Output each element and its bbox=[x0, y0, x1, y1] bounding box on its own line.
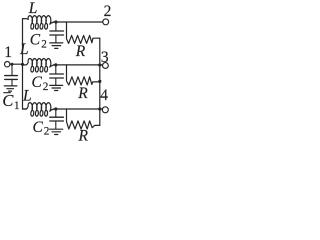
ground under C1 bbox=[4, 86, 17, 91]
svg-text:C: C bbox=[2, 91, 14, 110]
svg-text:C: C bbox=[33, 119, 44, 136]
resistor R3 bbox=[67, 109, 100, 129]
wire branch2 to terminal 3 bbox=[54, 64, 103, 66]
svg-text:1: 1 bbox=[14, 100, 20, 112]
wire right bus bbox=[99, 38, 101, 125]
svg-text:C: C bbox=[30, 32, 41, 49]
terminal 1 circle bbox=[5, 61, 10, 66]
capacitor C2 branch2 bbox=[50, 65, 64, 85]
svg-text:R: R bbox=[78, 127, 89, 144]
node right bus / branch3 wire bbox=[98, 107, 101, 110]
inductor L2 bbox=[23, 59, 54, 73]
svg-text:R: R bbox=[77, 85, 88, 102]
svg-text:2: 2 bbox=[44, 125, 50, 137]
ground under C2 branch3 bbox=[50, 129, 63, 134]
resistor R1 bbox=[67, 22, 100, 43]
terminal 2 circle bbox=[103, 19, 109, 25]
terminal 4 circle bbox=[102, 107, 108, 113]
capacitor C2 branch1 bbox=[50, 22, 64, 43]
svg-text:2: 2 bbox=[104, 3, 112, 20]
svg-text:2: 2 bbox=[41, 38, 47, 50]
wire left bus bbox=[23, 19, 27, 109]
node C2 tap branch2 bbox=[54, 63, 57, 66]
label C2 branch3 bbox=[33, 119, 50, 138]
svg-text:1: 1 bbox=[4, 44, 12, 61]
ground under C2 branch1 bbox=[50, 43, 63, 49]
svg-text:L: L bbox=[28, 0, 38, 17]
label C2 branch2 bbox=[32, 74, 49, 93]
node right bus / R2 bbox=[98, 80, 101, 83]
ground under C2 branch2 bbox=[50, 85, 63, 90]
label C1 with bar bbox=[2, 91, 19, 112]
svg-text:L: L bbox=[19, 41, 29, 58]
terminal 3 circle bbox=[103, 63, 109, 69]
resistor R2 bbox=[67, 65, 100, 85]
node C2 tap branch3 bbox=[54, 107, 57, 110]
label C2 branch1 bbox=[30, 32, 47, 51]
svg-text:R: R bbox=[75, 43, 86, 60]
node left bus junction bbox=[21, 63, 24, 66]
wire input to left bus bbox=[10, 63, 23, 65]
inductor L1 bbox=[23, 16, 54, 30]
node C2 tap branch1 bbox=[54, 20, 57, 23]
wire branch1 to terminal 2 bbox=[54, 21, 103, 23]
svg-text:C: C bbox=[32, 74, 43, 91]
node right bus / branch2 wire bbox=[98, 63, 101, 66]
inductor L3 bbox=[23, 103, 54, 117]
capacitor C1 bbox=[5, 64, 18, 85]
capacitor C2 branch3 bbox=[50, 109, 64, 129]
svg-text:2: 2 bbox=[43, 81, 49, 93]
svg-text:4: 4 bbox=[100, 87, 108, 104]
node C1 tap bbox=[11, 63, 14, 66]
wire branch3 to terminal 4 bbox=[54, 108, 103, 110]
